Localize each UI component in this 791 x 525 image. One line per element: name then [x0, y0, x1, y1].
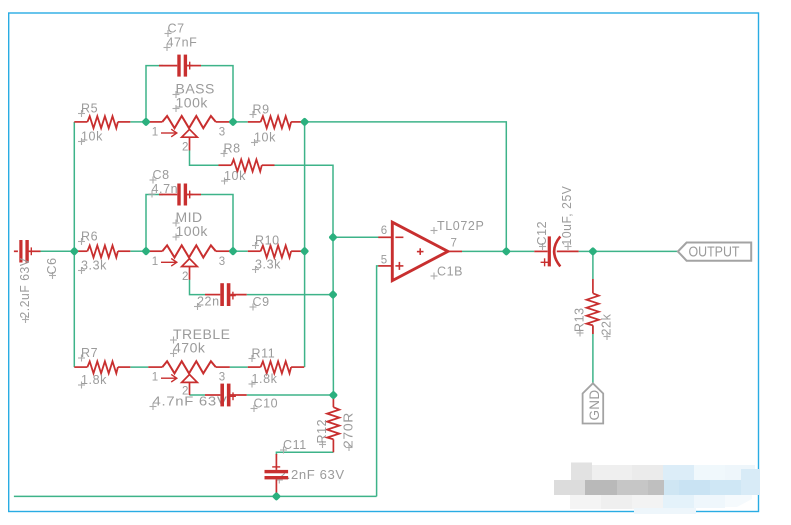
node C junction R9/feedback	[300, 117, 309, 126]
value R7 1.8k	[78, 373, 107, 389]
svg-text:C8: C8	[153, 168, 170, 182]
capacitor C9	[205, 283, 247, 306]
node B junction BASS pin3/C7/R9	[228, 117, 237, 126]
svg-text:C6: C6	[45, 257, 59, 274]
capacitor C7	[159, 55, 201, 77]
label C11	[280, 438, 307, 454]
resistor R9	[248, 116, 304, 128]
wire R6 to node D	[130, 250, 146, 252]
wire C7 left branch	[146, 66, 163, 122]
node F junction R10/right bus	[300, 246, 309, 255]
svg-text:10uF, 25V: 10uF, 25V	[560, 185, 574, 245]
label R10	[252, 234, 280, 250]
label R5	[78, 102, 98, 118]
svg-text:GND: GND	[587, 390, 602, 421]
label R6	[78, 230, 98, 246]
node G junction inverting input	[328, 233, 337, 242]
wire C10 to inverting bus	[247, 394, 334, 396]
label R7	[78, 346, 98, 362]
wire right bus vertical	[304, 122, 306, 367]
wire BASS wiper to R8	[190, 150, 219, 165]
value R6 3.3k	[78, 259, 107, 275]
wire C10 left segment	[189, 394, 205, 396]
svg-text:R12: R12	[315, 419, 329, 444]
svg-text:1.8k: 1.8k	[252, 372, 278, 386]
value TREBLE 470k	[170, 340, 206, 358]
wire C8 right branch	[201, 195, 233, 252]
potentiometer MID	[148, 245, 230, 279]
svg-text:2: 2	[182, 142, 188, 154]
node D junction R6/MID/C8	[141, 246, 150, 255]
label C10	[251, 397, 279, 413]
svg-text:100k: 100k	[176, 223, 209, 239]
wire C8 left branch	[146, 195, 163, 252]
resistor R10	[248, 246, 304, 258]
wire C12 to output node	[579, 250, 593, 252]
value R13 22k vertical	[600, 313, 614, 340]
value C11 2.2nF 63V	[276, 468, 345, 484]
label C7	[165, 22, 185, 38]
resistor R7	[74, 361, 130, 373]
svg-text:C1B: C1B	[437, 264, 463, 278]
value R10 3.3k	[252, 258, 281, 274]
value R12 270R vertical	[342, 412, 356, 451]
capacitor C6	[14, 240, 41, 263]
wire node E to R10	[233, 250, 248, 252]
svg-text:47nF: 47nF	[167, 36, 198, 50]
wire R7 to TREBLE pot	[130, 366, 148, 368]
wire C7 right branch	[201, 66, 233, 122]
capacitor C8	[159, 184, 201, 206]
label C12 vertical	[535, 221, 549, 250]
label C6 vertical	[45, 257, 59, 279]
label R8	[221, 142, 241, 158]
svg-text:3.3k: 3.3k	[81, 259, 107, 273]
label TREBLE	[170, 326, 230, 344]
resistor R11	[248, 361, 304, 373]
svg-text:10k: 10k	[224, 169, 246, 183]
svg-text:2: 2	[182, 271, 188, 283]
svg-text:OUTPUT: OUTPUT	[689, 244, 740, 261]
svg-text:22k: 22k	[600, 313, 614, 335]
wire MID wiper to C9	[190, 279, 206, 294]
svg-text:C12: C12	[535, 221, 549, 246]
label C9	[250, 295, 270, 311]
svg-text:C10: C10	[254, 397, 279, 411]
svg-text:C11: C11	[283, 438, 307, 452]
svg-text:2: 2	[182, 386, 188, 398]
svg-text:R9: R9	[253, 103, 270, 117]
node J junction output/feedback	[502, 247, 511, 256]
svg-text:4.7nF 63V: 4.7nF 63V	[153, 395, 228, 409]
svg-text:R13: R13	[573, 307, 587, 332]
wire R5 to node A	[130, 121, 146, 123]
resistor R13	[587, 279, 599, 334]
value MID 100k	[173, 223, 209, 241]
svg-text:3: 3	[219, 372, 225, 384]
svg-text:10k: 10k	[81, 130, 103, 144]
wire R13 to GND	[592, 325, 594, 383]
value C6 2.2uF 63V vertical	[18, 257, 32, 323]
svg-text:1: 1	[152, 256, 158, 268]
svg-text:TL072P: TL072P	[437, 219, 484, 233]
svg-text:3: 3	[219, 256, 225, 268]
watermark mosaic	[554, 463, 760, 515]
wire to op-amp pin 6	[333, 236, 379, 238]
resistor R8	[219, 160, 275, 172]
svg-text:2.2nF 63V: 2.2nF 63V	[279, 468, 345, 482]
svg-text:10k: 10k	[254, 131, 276, 145]
svg-text:7: 7	[451, 238, 457, 250]
label C1B	[431, 264, 464, 279]
svg-text:R6: R6	[81, 230, 98, 244]
label MID	[173, 209, 203, 227]
resistor R5	[74, 116, 130, 128]
label R13 vertical	[573, 307, 587, 336]
svg-text:3: 3	[219, 127, 225, 139]
svg-text:R5: R5	[81, 102, 98, 116]
wire R8 to inverting node	[275, 165, 334, 237]
capacitor C10	[205, 384, 247, 407]
label TL072P	[431, 219, 485, 234]
svg-text:100k: 100k	[176, 95, 209, 111]
svg-text:R8: R8	[224, 142, 241, 156]
potentiometer TREBLE	[148, 361, 230, 395]
svg-text:270R: 270R	[342, 412, 356, 448]
node E junction MID pin3/C8/R10	[228, 246, 237, 255]
svg-text:4.7n: 4.7n	[152, 182, 179, 196]
wire feedback from node C to output	[305, 122, 507, 252]
wire left input bus vertical	[73, 122, 75, 367]
svg-text:5: 5	[381, 254, 387, 266]
value C8 4.7nF	[149, 182, 179, 198]
svg-text:R10: R10	[255, 234, 280, 248]
wire TREBLE pin3 to R11	[230, 366, 248, 368]
node H junction C9/inverting bus	[328, 290, 337, 299]
wire bottom ground bus	[14, 495, 377, 497]
capacitor C11	[265, 454, 289, 496]
svg-text:1: 1	[152, 372, 158, 384]
value C9 22n	[194, 295, 220, 311]
label C8	[150, 168, 170, 184]
label R11	[249, 347, 276, 363]
value R5 10k	[78, 130, 103, 146]
label R9	[250, 103, 270, 119]
svg-text:R7: R7	[81, 346, 98, 360]
wire node B to R9	[233, 121, 248, 123]
value BASS 100k	[173, 95, 209, 113]
value C12 10uF 25V vertical	[560, 185, 574, 250]
value R11 1.8k	[249, 372, 278, 388]
capacitor C12	[534, 236, 578, 266]
svg-text:22n: 22n	[197, 295, 220, 309]
svg-text:R11: R11	[252, 347, 276, 361]
value 47nF	[164, 36, 198, 52]
value R8 10k	[221, 169, 246, 185]
value C10 4.7nF 63V	[150, 395, 228, 411]
svg-text:3.3k: 3.3k	[255, 258, 281, 272]
wire C6 to input node	[41, 250, 75, 252]
wire output node to OUTPUT flag	[593, 250, 678, 252]
svg-text:C7: C7	[168, 22, 185, 36]
resistor R12	[327, 395, 339, 452]
label R12 vertical	[315, 419, 329, 448]
svg-text:1.8k: 1.8k	[81, 373, 107, 387]
node I junction C10/R12	[329, 390, 338, 399]
wire inverting bus vertical	[332, 237, 334, 395]
node K junction C12/R13/OUTPUT	[588, 247, 597, 256]
ground flag GND	[583, 383, 604, 423]
svg-text:1: 1	[152, 127, 158, 139]
potentiometer BASS	[148, 116, 230, 150]
wire op-amp pin 5 to ground bus	[377, 266, 379, 497]
wire op-amp output to C12	[462, 250, 534, 252]
svg-text:6: 6	[381, 225, 387, 237]
svg-text:2.2uF 63V: 2.2uF 63V	[18, 257, 32, 318]
wire R12 to C11	[276, 452, 333, 455]
node A junction R5/BASS/C7	[141, 117, 150, 126]
op-amp U1 IC1B TL072P	[378, 222, 462, 280]
wire C9 to inverting bus	[247, 294, 333, 296]
node L junction C11/ground bus	[272, 492, 281, 501]
svg-text:470k: 470k	[173, 340, 206, 356]
output flag OUTPUT	[678, 243, 751, 261]
resistor R6	[74, 246, 130, 258]
wire output node to R13	[592, 251, 594, 279]
label BASS	[173, 81, 215, 99]
node input junction C6/bus	[70, 247, 79, 256]
value R9 10k	[251, 131, 276, 147]
svg-text:C9: C9	[253, 295, 270, 309]
